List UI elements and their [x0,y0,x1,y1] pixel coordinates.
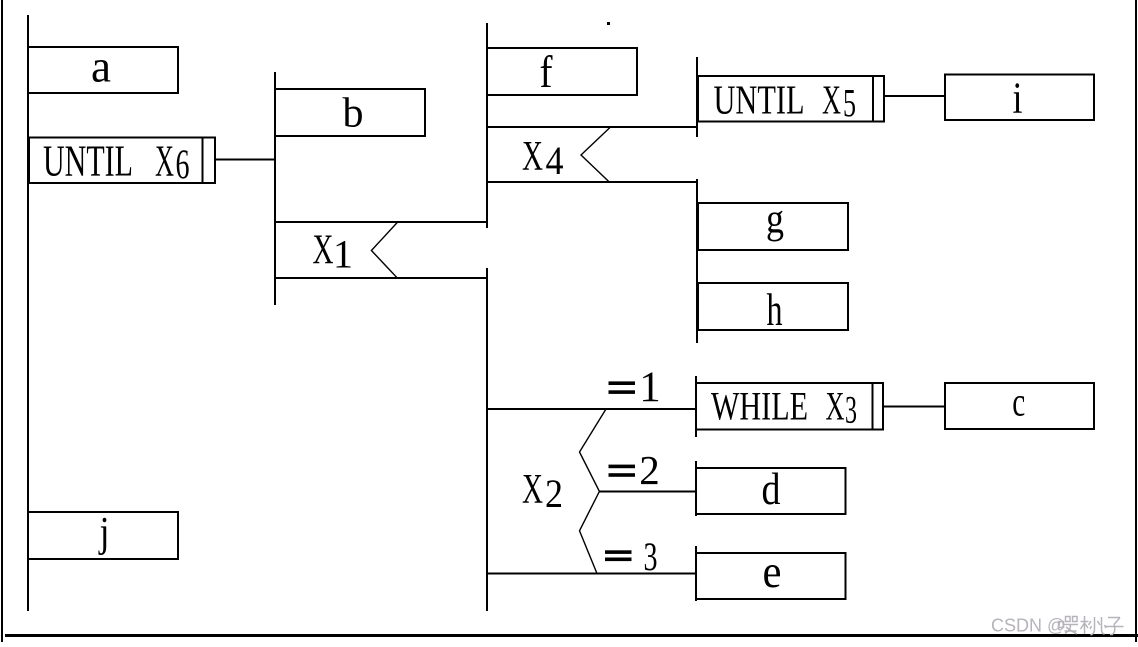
bottom border [5,634,1138,637]
wire V1 main left vertical [27,15,29,611]
wire branch =3 line [486,573,697,575]
wire tick box d [695,461,697,516]
svg-text:j: j [98,510,110,556]
svg-text:X: X [522,467,543,513]
box e [696,553,846,599]
wire branch =2 line [599,491,697,493]
wire tick box e [695,546,697,601]
chevron X1 [371,222,397,278]
wire branch =1 line [486,408,697,410]
svg-text:d: d [762,464,781,514]
wire connector WHILE X3 to box c [882,406,945,408]
svg-text:b: b [343,91,364,137]
box j [28,512,178,559]
svg-text:3: 3 [644,534,658,579]
svg-text:UNTIL: UNTIL [714,76,805,122]
box a [28,47,178,93]
chevron X4 [581,127,611,182]
right border [1135,0,1137,642]
svg-text:CSDN @: CSDN @ [991,616,1065,636]
box b [275,89,425,136]
wire X4 bottom line [486,181,698,183]
watermark CJK char tao [1081,616,1107,635]
wire V3 upper segment [486,23,488,228]
box i [945,75,1094,121]
svg-text:3: 3 [845,388,857,431]
box h [698,283,848,330]
box g [698,203,848,250]
svg-text:6: 6 [176,143,190,189]
svg-text:4: 4 [546,138,564,183]
wire connector UNTIL X5 to box i [883,95,946,97]
box WHILE X3 [696,383,883,430]
box UNTIL X5 [698,76,884,122]
watermark CJK char ying [1059,617,1079,635]
wire X1 top line [274,221,488,223]
svg-text:h: h [767,285,783,335]
wire tick WHILE X3 [695,376,697,437]
wire X1 bottom line [274,277,488,279]
wire V4 lower segment [696,179,698,343]
label =3 equals bars [605,550,632,554]
wire connector UNTIL X6 to V2 [214,159,276,161]
svg-text:X: X [826,383,845,428]
svg-text:X: X [155,136,174,186]
wire V2 vertical [274,72,276,305]
wire V4 upper segment [696,57,698,137]
svg-text:1: 1 [333,231,353,276]
svg-text:WHILE: WHILE [711,383,808,428]
box f [487,48,637,95]
stray dot [607,22,610,25]
zigzag X2 [580,409,607,574]
svg-text:X: X [313,228,334,274]
svg-text:1: 1 [639,364,661,411]
wire X4 top line [486,126,698,128]
svg-text:5: 5 [843,80,856,125]
svg-text:a: a [91,41,111,92]
label =1 equals bars [609,381,636,385]
svg-text:g: g [766,197,784,243]
svg-text:c: c [1012,379,1025,425]
double line UNTIL X5 [872,76,874,122]
svg-text:X: X [822,76,841,122]
svg-text:e: e [763,546,782,598]
wire V3 lower segment [486,268,488,611]
svg-text:2: 2 [545,471,563,516]
svg-text:X: X [522,134,543,180]
svg-text:f: f [540,47,553,97]
double line UNTIL X6 [202,138,204,184]
box UNTIL X6 [29,138,215,184]
double line WHILE X3 [872,383,874,430]
svg-text:2: 2 [639,447,660,493]
label =2 equals bars [609,465,636,469]
svg-text:i: i [1013,74,1023,123]
box c [945,383,1094,429]
watermark CJK char zi [1105,618,1124,635]
box d [696,468,846,514]
left border [1,0,3,642]
svg-text:UNTIL: UNTIL [43,136,133,186]
